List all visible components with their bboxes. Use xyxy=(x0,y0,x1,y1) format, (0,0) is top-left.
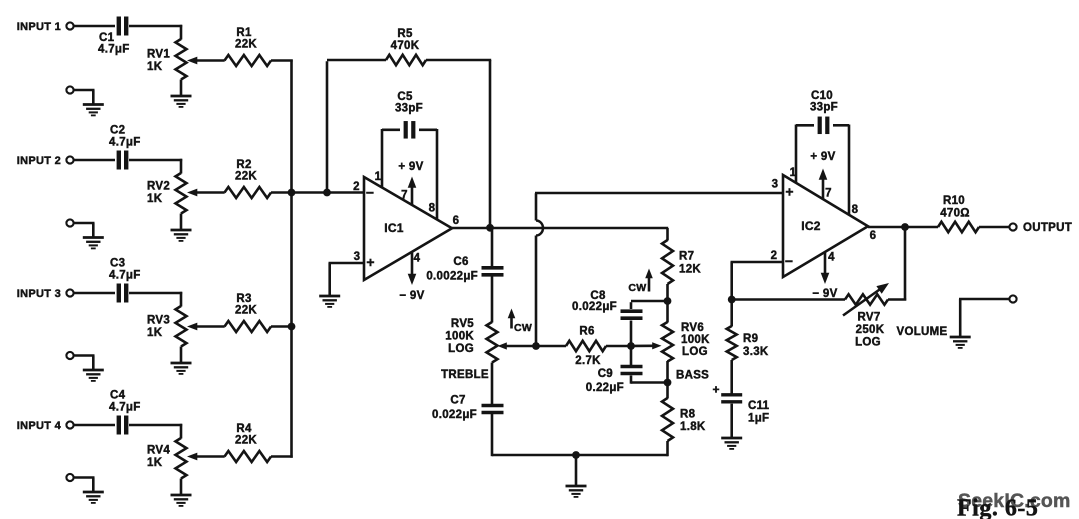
svg-text:33pF: 33pF xyxy=(395,103,423,115)
svg-text:22K: 22K xyxy=(235,171,257,183)
svg-text:22K: 22K xyxy=(235,435,257,447)
svg-text:R8: R8 xyxy=(680,409,696,421)
svg-text:BASS: BASS xyxy=(676,370,709,382)
wire junction to R9 xyxy=(730,300,733,327)
junction IC1 output node xyxy=(486,224,494,232)
potentiometer RV6 100K LOG bass xyxy=(652,301,710,383)
svg-text:Fig. 6-5: Fig. 6-5 xyxy=(957,496,1038,519)
svg-text:TREBLE: TREBLE xyxy=(441,369,489,381)
wire IC2 pin6 out xyxy=(868,226,905,229)
svg-text:2.7K: 2.7K xyxy=(575,355,601,367)
ground INPUT 4 stub xyxy=(83,492,104,503)
svg-text:RV2: RV2 xyxy=(147,181,170,193)
capacitor C4 4.7uF xyxy=(109,390,141,435)
svg-text:RV4: RV4 xyxy=(147,445,170,457)
svg-text:3: 3 xyxy=(772,179,779,191)
svg-text:470K: 470K xyxy=(391,40,420,52)
svg-text:1: 1 xyxy=(375,171,382,183)
junction IC2 output xyxy=(901,223,909,231)
potentiometer RV3 1K xyxy=(147,306,225,347)
svg-text:R10: R10 xyxy=(943,195,965,207)
svg-text:INPUT 2: INPUT 2 xyxy=(17,155,61,167)
pin 3 label IC1 xyxy=(354,251,361,263)
pin 1 label IC1 xyxy=(375,171,382,183)
capacitor C1 4.7uF xyxy=(98,17,130,56)
wire INPUT 2 to C2 xyxy=(75,159,116,162)
wire R1 to bus xyxy=(271,59,293,62)
wire R7 to junction xyxy=(666,284,669,301)
wire R10 to output terminal xyxy=(979,226,1009,229)
potentiometer RV4 1K xyxy=(147,438,225,479)
svg-text:2: 2 xyxy=(771,250,778,262)
wire R8 to rail xyxy=(666,441,669,456)
svg-text:LOG: LOG xyxy=(448,343,474,355)
wire INPUT 4 to C4 xyxy=(75,424,116,427)
wire rail to ground xyxy=(575,455,578,486)
wire C6 to RV5 xyxy=(491,277,494,323)
svg-text:7: 7 xyxy=(401,190,408,202)
svg-text:RV5: RV5 xyxy=(451,318,474,330)
ground IC1 pin 3 xyxy=(319,296,340,307)
svg-text:C2: C2 xyxy=(110,125,125,137)
wire feedback left xyxy=(327,60,386,192)
svg-text:4.7μF: 4.7μF xyxy=(109,137,141,149)
label VOLUME xyxy=(897,326,948,338)
pin 4 -9V supply IC1 xyxy=(399,252,424,302)
junction bus/R2 xyxy=(288,189,296,197)
wire C3 to RV3 xyxy=(129,292,182,307)
terminal INPUT 1 ground stub xyxy=(66,86,73,93)
capacitor C9 0.22uF xyxy=(586,367,643,395)
svg-text:1μF: 1μF xyxy=(748,413,769,425)
resistor R10 470ohm xyxy=(938,195,979,232)
wire output row to R7 xyxy=(490,227,668,230)
resistor R8 1.8K xyxy=(662,398,706,441)
capacitor C10 33pF xyxy=(810,90,838,134)
svg-text:VOLUME: VOLUME xyxy=(897,326,948,338)
wire junction to RV7 xyxy=(732,298,845,301)
svg-text:0.022μF: 0.022μF xyxy=(572,301,617,313)
svg-text:RV6: RV6 xyxy=(681,322,704,334)
terminal INPUT 1 xyxy=(66,22,73,29)
terminal output ground stub xyxy=(1009,295,1016,302)
wire junction to RV6 wiper xyxy=(631,344,653,347)
wire C10 left pin 1 xyxy=(796,125,814,184)
svg-text:33pF: 33pF xyxy=(810,102,838,114)
svg-text:C3: C3 xyxy=(110,258,125,270)
resistor R6 2.7K xyxy=(566,326,606,368)
resistor R1 22K xyxy=(225,27,272,66)
wire C4 to RV4 xyxy=(129,424,182,439)
svg-text:1K: 1K xyxy=(147,193,163,205)
wire riser RV5-wiper to IC2 pin3 with hop xyxy=(536,193,543,345)
svg-text:LOG: LOG xyxy=(855,337,881,349)
wire INPUT 1 ground stub xyxy=(75,90,95,105)
svg-text:R7: R7 xyxy=(679,251,694,263)
svg-text:7: 7 xyxy=(825,188,832,200)
capacitor C7 0.022uF xyxy=(432,395,503,422)
wire INPUT 3 to C3 xyxy=(75,292,116,295)
pin 7 +9V supply IC1 xyxy=(398,161,423,205)
wire RV3 to ground xyxy=(180,347,183,364)
svg-text:22K: 22K xyxy=(235,39,257,51)
wire RV5 to C7 xyxy=(491,363,494,405)
svg-text:IC1: IC1 xyxy=(384,221,404,235)
wire C5 right pin 8 xyxy=(419,129,437,220)
svg-text:2: 2 xyxy=(353,181,360,193)
ground C11 xyxy=(721,438,742,449)
svg-text:3: 3 xyxy=(354,251,361,263)
svg-text:22K: 22K xyxy=(235,305,257,317)
wire RV7 up to output xyxy=(888,227,906,301)
wire riser junction to R6 xyxy=(536,345,566,348)
svg-text:LOG: LOG xyxy=(682,346,708,358)
svg-text:12K: 12K xyxy=(679,264,701,276)
pin 6 label IC1 xyxy=(453,215,460,227)
svg-text:0.22μF: 0.22μF xyxy=(586,382,624,394)
wire C7 down to rail xyxy=(492,414,576,456)
pin 1 label IC2 xyxy=(790,167,797,179)
svg-text:INPUT 1: INPUT 1 xyxy=(17,21,61,33)
ground under RV3 xyxy=(171,363,192,374)
svg-text:−: − xyxy=(366,185,374,201)
ground under RV4 xyxy=(171,495,192,506)
svg-text:−: − xyxy=(785,253,793,269)
potentiometer RV7 250K LOG volume xyxy=(843,283,889,349)
ground under RV2 xyxy=(171,230,192,241)
ground bottom rail xyxy=(566,486,587,497)
svg-text:0.0022μF: 0.0022μF xyxy=(426,271,478,283)
svg-text:R6: R6 xyxy=(579,326,594,338)
svg-text:RV7: RV7 xyxy=(857,312,880,324)
wire IC2 pin 2 down xyxy=(731,262,784,300)
op-amp IC2 xyxy=(783,175,868,277)
CW arrow RV5 xyxy=(508,309,532,335)
wire RV2 to ground xyxy=(180,214,183,231)
label Fig. 6-5 xyxy=(957,496,1038,519)
terminal INPUT 4 ground stub xyxy=(66,474,73,481)
svg-text:C9: C9 xyxy=(598,368,613,380)
pin 3 label IC2 xyxy=(772,179,779,191)
svg-text:1K: 1K xyxy=(147,457,163,469)
label INPUT 3 xyxy=(17,288,61,300)
svg-text:8: 8 xyxy=(429,203,436,215)
svg-text:4: 4 xyxy=(414,253,421,265)
svg-text:4: 4 xyxy=(828,252,835,264)
wire C2 to RV2 xyxy=(129,159,182,174)
wire output ground stub xyxy=(959,299,1009,337)
wire C11 to ground xyxy=(730,404,733,438)
wire C1 to RV1 xyxy=(129,25,182,40)
junction rail ground xyxy=(572,451,580,459)
svg-text:250K: 250K xyxy=(856,324,885,336)
svg-text:R5: R5 xyxy=(397,28,413,40)
capacitor C6 0.0022uF xyxy=(426,256,503,283)
wire summing bus vertical xyxy=(290,60,293,458)
resistor R7 12K xyxy=(662,240,701,284)
wire feedback right down xyxy=(426,60,491,227)
svg-text:0.022μF: 0.022μF xyxy=(432,409,477,421)
wire R6 to junction xyxy=(606,345,631,348)
wire INPUT 3 ground stub xyxy=(75,356,95,371)
svg-text:8: 8 xyxy=(852,204,859,216)
terminal INPUT 2 ground stub xyxy=(66,219,73,226)
svg-text:INPUT 4: INPUT 4 xyxy=(17,420,62,432)
svg-text:C6: C6 xyxy=(453,256,468,268)
svg-text:+: + xyxy=(785,184,793,200)
svg-text:C7: C7 xyxy=(450,395,465,407)
wire bus to node A xyxy=(292,191,328,194)
terminal INPUT 4 xyxy=(66,421,73,428)
svg-text:CW: CW xyxy=(628,282,646,294)
wire INPUT 2 ground stub xyxy=(75,223,95,238)
svg-text:C4: C4 xyxy=(110,390,126,402)
capacitor C8 0.022uF xyxy=(572,290,642,318)
wire long run to IC2 pin 3 xyxy=(535,192,783,195)
svg-text:C11: C11 xyxy=(748,400,770,412)
capacitor C5 33pF xyxy=(395,91,423,139)
ground output stub xyxy=(950,337,971,348)
junction R7 RV6 C8 xyxy=(664,297,672,305)
junction bus/R3 xyxy=(288,323,296,331)
svg-text:100K: 100K xyxy=(445,331,474,343)
terminal INPUT 2 xyxy=(66,156,73,163)
junction RV5 wiper riser R6 xyxy=(532,342,540,350)
wire R3 to bus xyxy=(271,325,293,328)
wire rail to R8 xyxy=(576,454,668,457)
ground INPUT 3 stub xyxy=(83,370,104,381)
label OUTPUT xyxy=(1023,222,1072,234)
wire output row down to R7 xyxy=(666,228,669,241)
svg-text:R9: R9 xyxy=(743,333,758,345)
pin 2 label IC1 xyxy=(353,181,360,193)
terminal INPUT 3 ground stub xyxy=(66,352,73,359)
svg-text:1.8K: 1.8K xyxy=(680,421,706,433)
svg-text:6: 6 xyxy=(453,215,460,227)
svg-text:4.7μF: 4.7μF xyxy=(98,44,130,56)
pin 4 -9V supply IC2 xyxy=(812,252,837,301)
pin 8 label IC2 xyxy=(852,204,859,216)
ground INPUT 2 stub xyxy=(83,238,104,249)
svg-text:RV3: RV3 xyxy=(147,315,170,327)
wire junction down to C9 xyxy=(630,346,633,365)
svg-text:6: 6 xyxy=(870,230,877,242)
resistor R4 22K xyxy=(225,423,272,462)
pin 2 label IC2 xyxy=(771,250,778,262)
label TREBLE xyxy=(441,369,489,381)
pin 7 +9V supply IC2 xyxy=(810,151,835,200)
svg-text:3.3K: 3.3K xyxy=(743,346,769,358)
svg-text:RV1: RV1 xyxy=(147,49,170,61)
wire C8 to RV6 top xyxy=(631,301,668,309)
junction pin2 R9 RV7 xyxy=(728,296,736,304)
terminal INPUT 3 xyxy=(66,289,73,296)
wire R9 to C11 xyxy=(730,360,733,394)
svg-text:1K: 1K xyxy=(147,327,163,339)
wire C9 to RV6 bottom xyxy=(631,376,668,384)
svg-text:+: + xyxy=(712,383,719,397)
terminal OUTPUT xyxy=(1009,223,1016,230)
svg-text:R2: R2 xyxy=(236,159,251,171)
svg-text:C10: C10 xyxy=(811,90,833,102)
pin 6 label IC2 xyxy=(870,230,877,242)
label BASS xyxy=(676,370,709,382)
op-amp IC1 xyxy=(364,177,452,280)
label INPUT 2 xyxy=(17,155,61,167)
wire IC1 pin6 out xyxy=(452,227,490,230)
wire to R10 xyxy=(905,226,938,229)
pin 8 label IC1 xyxy=(429,203,436,215)
wire RV6 to R8 xyxy=(666,383,669,399)
capacitor C3 4.7uF xyxy=(109,258,141,303)
wire C10 right pin 8 xyxy=(833,125,849,216)
wire node A to IC1 pin 2 xyxy=(327,191,364,194)
svg-text:100K: 100K xyxy=(681,334,710,346)
wire INPUT 1 to C1 xyxy=(75,25,116,28)
capacitor C2 4.7uF xyxy=(109,125,141,170)
svg-text:R3: R3 xyxy=(236,293,251,305)
wire IC1 pin 3 to ground xyxy=(329,263,365,296)
resistor R3 22K xyxy=(225,293,272,332)
potentiometer RV5 100K LOG treble xyxy=(445,318,536,363)
resistor R2 22K xyxy=(225,159,272,198)
wire junction up to C8 xyxy=(630,321,633,347)
svg-text:CW: CW xyxy=(514,322,532,334)
wire RV4 to ground xyxy=(180,479,183,496)
junction node A feedback/pin2 xyxy=(323,189,331,197)
svg-text:+: + xyxy=(366,254,374,270)
svg-text:+ 9V: + 9V xyxy=(398,161,423,173)
wire R4 to bus xyxy=(271,455,293,458)
potentiometer RV1 1K xyxy=(147,39,225,80)
label INPUT 1 xyxy=(17,21,61,33)
svg-text:1K: 1K xyxy=(147,61,163,73)
wire C5 left pin 1 xyxy=(382,129,400,188)
svg-text:C1: C1 xyxy=(99,32,115,44)
svg-text:IC2: IC2 xyxy=(801,219,821,233)
svg-text:− 9V: − 9V xyxy=(399,290,424,302)
capacitor C11 1uF polarized xyxy=(712,383,769,425)
svg-text:4.7μF: 4.7μF xyxy=(109,270,141,282)
potentiometer RV2 1K xyxy=(147,173,225,214)
label INPUT 4 xyxy=(17,420,62,432)
svg-text:C5: C5 xyxy=(397,91,413,103)
resistor R9 3.3K xyxy=(727,326,769,360)
wire R2 to bus xyxy=(271,191,293,194)
wire output node down to C6 xyxy=(491,228,494,266)
ground under RV1 xyxy=(171,96,192,107)
wire INPUT 4 ground stub xyxy=(75,478,95,493)
svg-text:+ 9V: + 9V xyxy=(810,151,835,163)
svg-text:OUTPUT: OUTPUT xyxy=(1023,222,1072,234)
junction R6 C8 C9 wiper xyxy=(627,342,635,350)
CW arrow RV6 xyxy=(628,269,652,295)
ground INPUT 1 stub xyxy=(83,105,104,116)
resistor R5 470K xyxy=(386,28,426,65)
watermark SeekIC.com xyxy=(958,490,1071,512)
svg-text:4.7μF: 4.7μF xyxy=(109,402,141,414)
svg-text:R1: R1 xyxy=(236,27,252,39)
svg-text:470Ω: 470Ω xyxy=(940,208,970,220)
svg-text:INPUT 3: INPUT 3 xyxy=(17,288,61,300)
svg-text:R4: R4 xyxy=(236,423,252,435)
wire RV1 to ground xyxy=(180,80,183,97)
junction RV6 bottom C9 R8 xyxy=(664,379,672,387)
